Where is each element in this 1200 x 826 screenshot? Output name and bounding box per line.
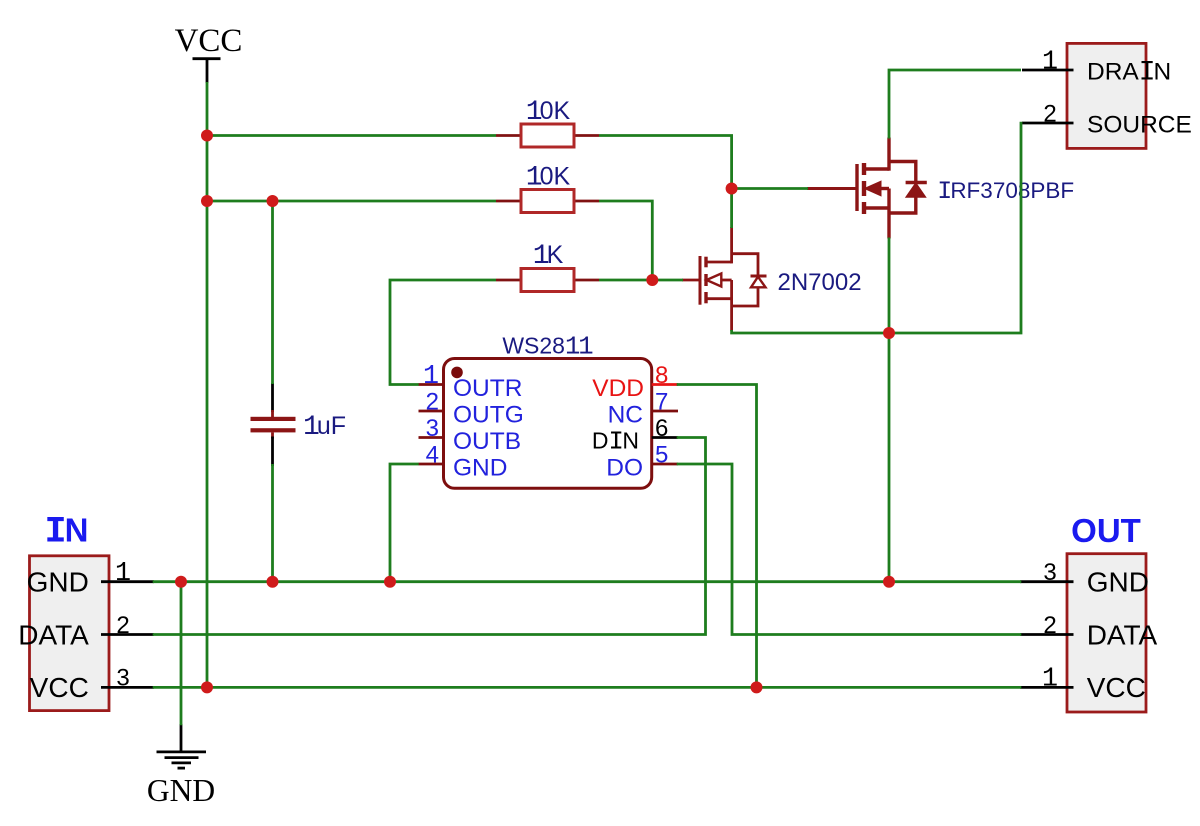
svg-text:1: 1 — [115, 559, 131, 589]
svg-text:4: 4 — [426, 442, 439, 469]
svg-text:VCC: VCC — [1087, 672, 1146, 703]
pin 6 DIN U1 — [592, 415, 678, 456]
junction dot (889,333) — [883, 327, 895, 339]
svg-text:DRAIN: DRAIN — [1087, 58, 1171, 89]
svg-text:DIN: DIN — [592, 427, 639, 456]
junction dot (207,135.5) — [201, 130, 213, 142]
wire 2N7002 drain from junction — [730, 187, 733, 228]
svg-text:OUT: OUT — [1071, 512, 1141, 549]
svg-text:3: 3 — [1043, 559, 1056, 586]
svg-text:2: 2 — [426, 389, 439, 416]
svg-text:10K: 10K — [526, 97, 571, 128]
svg-text:OUTB: OUTB — [453, 428, 521, 455]
pin 4 GND U1 — [419, 442, 508, 482]
wire GND row — [153, 580, 1022, 583]
pin VCC J2 pin 1 — [1020, 665, 1146, 704]
junction dot (272.5,201) — [267, 195, 279, 207]
pin DATA J2 pin 2 — [1020, 612, 1158, 651]
svg-text:10K: 10K — [526, 163, 571, 194]
wire DO to DATA out row — [677, 464, 1022, 635]
wire row1 right — [599, 136, 732, 190]
wire row1 left — [206, 134, 496, 137]
svg-text:DO: DO — [606, 454, 643, 481]
wire row2 left — [206, 200, 496, 203]
wire 1K right to gate — [599, 279, 683, 282]
svg-text:GND: GND — [453, 455, 507, 482]
pin 5 DO U1 — [606, 442, 678, 482]
pin-1 marker dot U1 — [451, 367, 463, 379]
svg-text:2: 2 — [116, 612, 129, 639]
transistor Q2 IRF3708PBF — [807, 138, 1074, 239]
pin DRAIN J3 pin 1 — [1022, 47, 1171, 88]
connector J3 DRAIN/SOURCE box — [1067, 43, 1146, 148]
junction dot (731.6,188.5) — [726, 183, 738, 195]
svg-text:3: 3 — [426, 415, 439, 442]
svg-text:SOURCE: SOURCE — [1087, 112, 1192, 139]
capacitor C1 1uF — [251, 383, 347, 466]
pin 8 VDD U1 — [592, 362, 678, 402]
IC U1 WS2811 body — [444, 359, 652, 489]
pin DATA J1 pin 2 — [18, 612, 154, 651]
resistor R2 10K middle — [496, 163, 599, 213]
svg-text:OUTG: OUTG — [453, 402, 524, 429]
svg-text:1: 1 — [1042, 665, 1058, 695]
junction dot (272.5,581.7) — [267, 576, 279, 588]
svg-text:2: 2 — [1043, 100, 1056, 127]
power symbol VCC — [175, 23, 243, 83]
junction dot (181,581.7) — [175, 576, 187, 588]
wire VCC rail vertical — [206, 82, 209, 687]
wire IRF source down to GND row — [888, 238, 891, 582]
svg-text:GND: GND — [147, 773, 215, 808]
transistor Q1 2N7002 — [682, 227, 862, 331]
svg-text:1: 1 — [1042, 47, 1058, 77]
svg-text:2: 2 — [1043, 612, 1056, 639]
svg-text:GND: GND — [1087, 567, 1149, 598]
wire VDD branch — [677, 385, 757, 688]
svg-text:OUTR: OUTR — [453, 375, 522, 402]
resistor R3 1K — [496, 241, 599, 292]
svg-text:IN: IN — [45, 512, 89, 554]
svg-text:DATA: DATA — [1087, 619, 1158, 650]
svg-text:3: 3 — [116, 665, 129, 692]
junction dot (889,581.7) — [883, 576, 895, 588]
wire DATA in row to DIN — [153, 438, 706, 635]
pin GND J1 pin 1 — [27, 559, 154, 598]
power symbol GND — [147, 724, 215, 808]
connector J1 IN box — [30, 556, 110, 711]
pin VCC J1 pin 3 — [30, 665, 154, 704]
pin 2 OUTG U1 — [419, 389, 524, 429]
pin 3 OUTB U1 — [419, 415, 522, 455]
wire row2 right + drop — [599, 201, 652, 281]
wire GND symbol branch — [180, 580, 183, 725]
svg-text:DATA: DATA — [18, 619, 89, 650]
svg-text:IRF3708PBF: IRF3708PBF — [937, 177, 1074, 206]
wire IRF drain to DRAIN pin — [889, 70, 1021, 139]
svg-text:VCC: VCC — [175, 23, 243, 59]
svg-text:8: 8 — [655, 362, 668, 389]
svg-text:2N7002: 2N7002 — [778, 269, 862, 296]
junction dot (652.3,280) — [646, 274, 658, 286]
pin 1 OUTR U1 — [419, 362, 523, 402]
junction dot (390,581.7) — [384, 576, 396, 588]
junction dot (756.5,687.4) — [751, 681, 763, 693]
svg-text:1K: 1K — [533, 241, 564, 272]
wire pin4 GND branch — [390, 464, 419, 582]
pin GND J2 pin 3 — [1020, 559, 1149, 598]
wire cap top branch — [271, 200, 274, 384]
wire VCC row — [153, 686, 1022, 689]
svg-text:6: 6 — [655, 415, 668, 442]
svg-text:WS2811: WS2811 — [502, 333, 593, 362]
junction dot (207,201) — [201, 195, 213, 207]
resistor R1 10K top — [496, 97, 599, 147]
svg-text:VCC: VCC — [30, 672, 89, 703]
junction dot (207,687.4) — [201, 681, 213, 693]
svg-text:1uF: 1uF — [303, 412, 346, 443]
svg-text:1: 1 — [423, 362, 439, 392]
svg-text:VDD: VDD — [592, 375, 644, 402]
svg-text:NC: NC — [608, 401, 643, 428]
pin 7 NC U1 — [608, 389, 678, 429]
pin SOURCE J3 pin 2 — [1022, 100, 1192, 138]
wire 1K left + up from pin1 — [390, 280, 496, 385]
wire gate IRF — [730, 187, 808, 190]
svg-text:7: 7 — [655, 389, 668, 416]
wire cap bottom to GND row — [271, 464, 274, 583]
svg-text:GND: GND — [27, 567, 89, 598]
connector J2 OUT box — [1067, 554, 1146, 712]
wire 2N7002 source to SOURCE pin — [732, 122, 1021, 333]
svg-text:5: 5 — [655, 442, 668, 469]
